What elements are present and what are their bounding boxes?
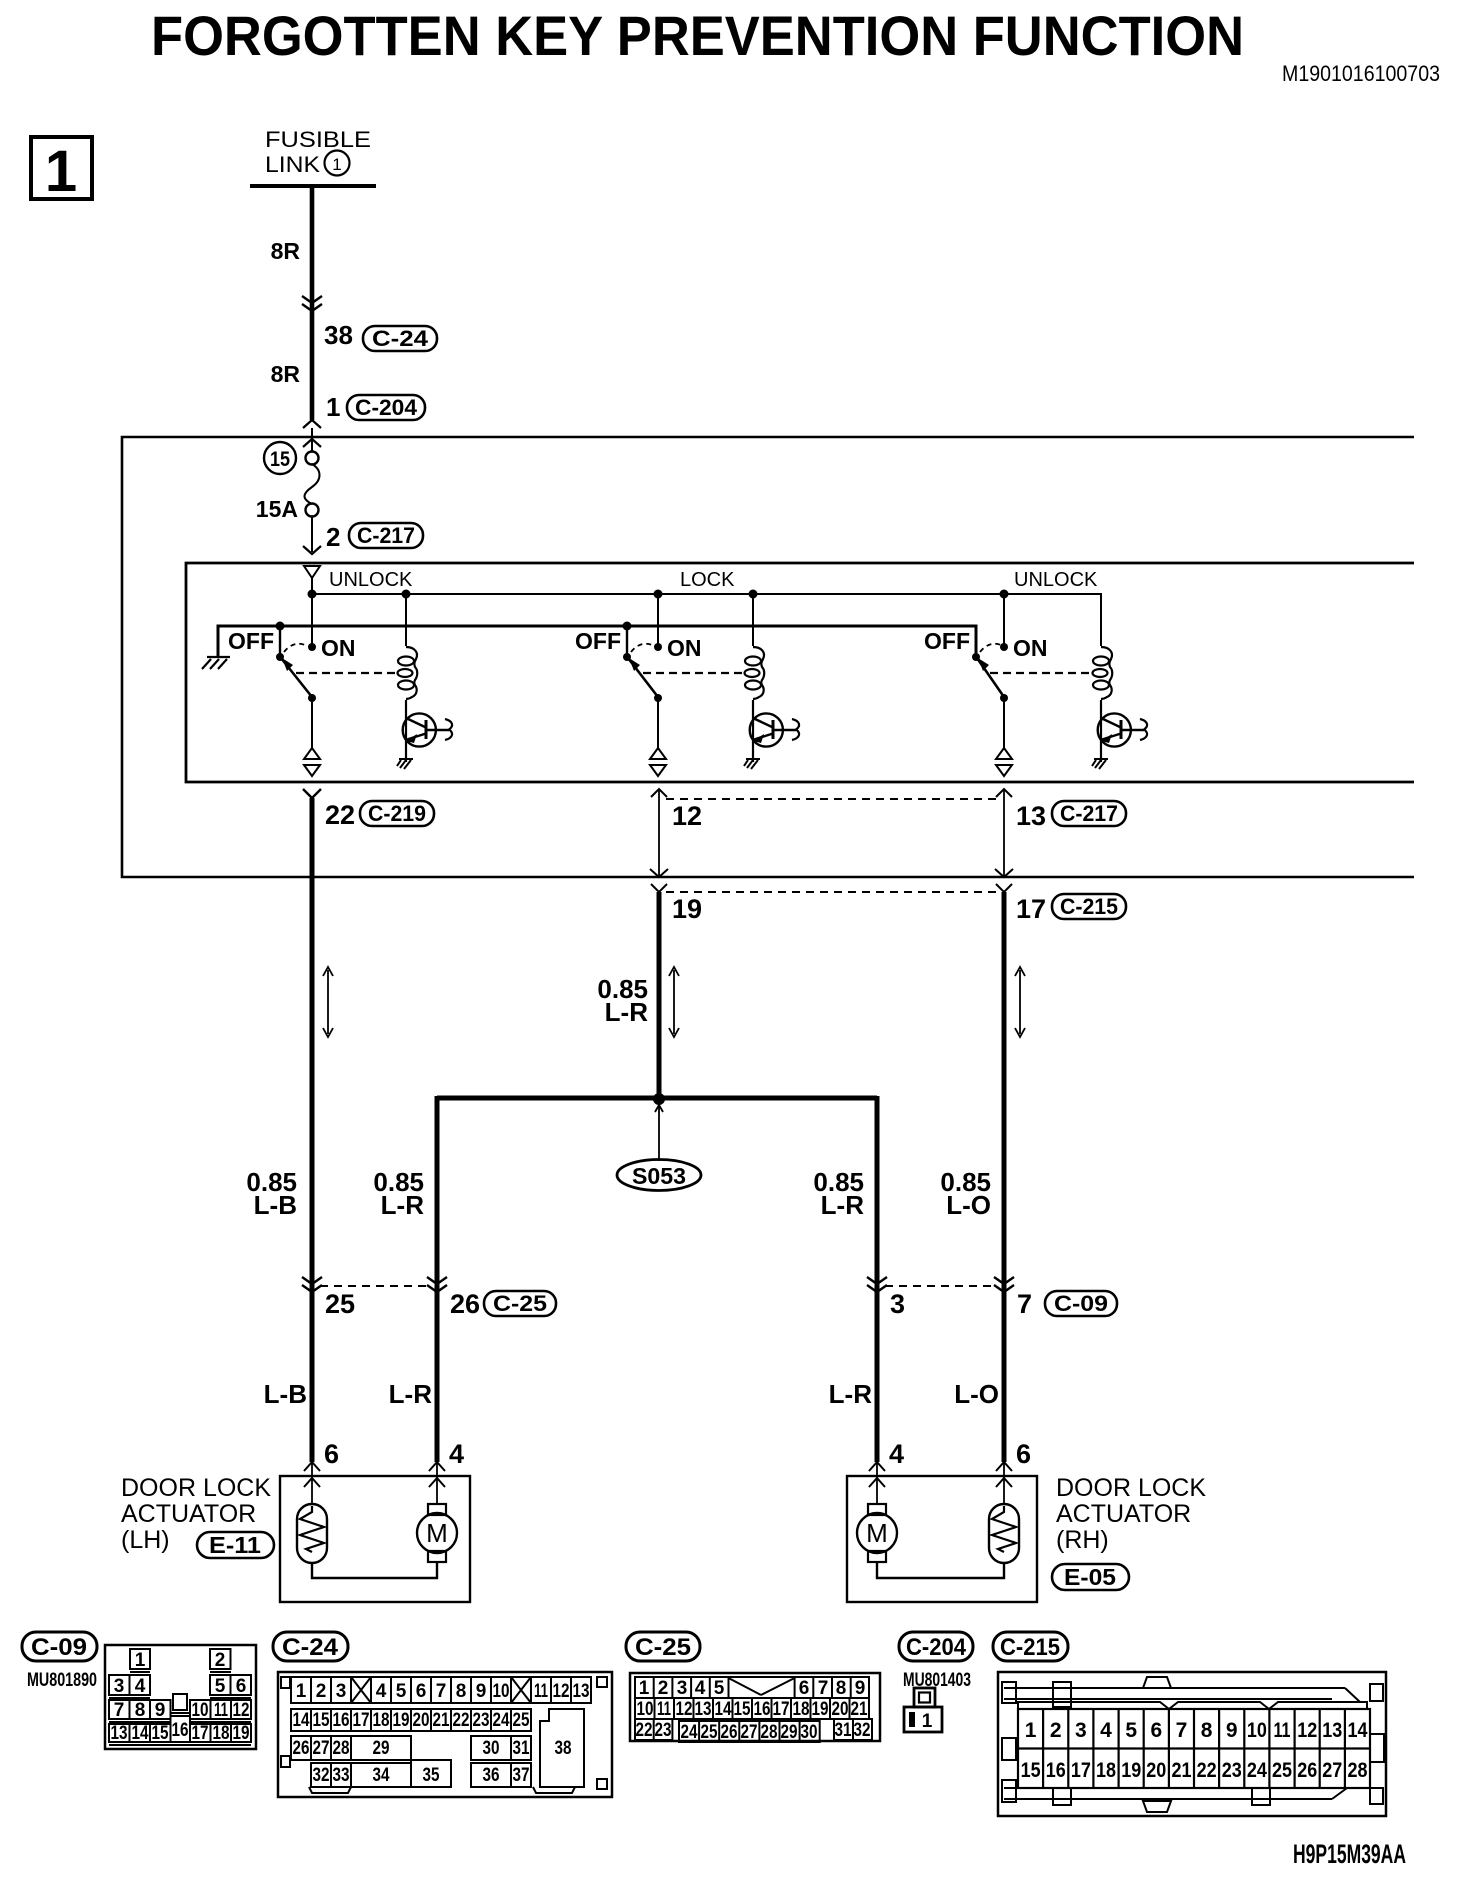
svg-text:LOCK: LOCK — [680, 569, 735, 591]
svg-text:17: 17 — [1071, 1759, 1091, 1782]
C-215 top clip — [1143, 1677, 1171, 1688]
transistor Q3 — [1098, 713, 1147, 746]
dashed pair line 12-13 — [666, 798, 997, 800]
C-09 connector body — [105, 1645, 256, 1749]
connector capsule C-09 — [1045, 1291, 1117, 1316]
connector pass chevrons on feed wire — [302, 296, 322, 311]
svg-text:DOOR LOCK: DOOR LOCK — [1056, 1474, 1206, 1502]
svg-text:7: 7 — [818, 1678, 829, 1699]
svg-text:15: 15 — [152, 1723, 169, 1744]
svg-text:ON: ON — [321, 635, 356, 661]
C-25 row 3 cells — [635, 1719, 672, 1740]
svg-text:16: 16 — [1046, 1759, 1066, 1782]
svg-text:6: 6 — [799, 1678, 810, 1699]
svg-text:4: 4 — [889, 1439, 904, 1469]
svg-text:10: 10 — [1247, 1719, 1267, 1742]
svg-text:DOOR LOCK: DOOR LOCK — [121, 1474, 271, 1502]
connector capsule C-219 — [360, 801, 434, 826]
svg-text:14: 14 — [1348, 1719, 1368, 1742]
svg-text:S053: S053 — [632, 1163, 686, 1189]
relay block inner box — [186, 563, 1414, 782]
capsule C-09 (pinout) — [22, 1632, 97, 1661]
svg-text:4: 4 — [449, 1439, 464, 1469]
chevron on wire 22 — [303, 789, 321, 798]
svg-text:11: 11 — [534, 1681, 548, 1702]
relay coil R1 — [398, 647, 418, 699]
C-09 pin 16 tall — [171, 1716, 191, 1742]
svg-text:26: 26 — [450, 1289, 480, 1319]
wire: pin 12 link — [651, 789, 667, 797]
svg-text:19: 19 — [672, 894, 702, 924]
svg-text:ACTUATOR: ACTUATOR — [1056, 1500, 1191, 1528]
svg-text:22: 22 — [453, 1710, 470, 1731]
svg-text:FUSIBLE: FUSIBLE — [265, 127, 371, 152]
svg-text:E-11: E-11 — [209, 1532, 261, 1558]
svg-text:C-24: C-24 — [282, 1634, 339, 1661]
entry arrows pin 4 (RH) — [869, 1462, 885, 1471]
svg-text:(RH): (RH) — [1056, 1526, 1109, 1554]
svg-text:C-24: C-24 — [372, 326, 429, 351]
svg-text:11: 11 — [657, 1699, 671, 1720]
RH actuator coil — [989, 1504, 1019, 1563]
svg-text:13: 13 — [1016, 801, 1046, 831]
sheet number box 1 — [31, 137, 92, 199]
arrowhead down to relay block — [303, 546, 321, 554]
harness double arrow (left) — [323, 967, 333, 1037]
svg-text:C-25: C-25 — [493, 1291, 547, 1316]
svg-text:25: 25 — [513, 1710, 530, 1731]
svg-text:9: 9 — [476, 1681, 487, 1702]
svg-text:9: 9 — [1226, 1719, 1238, 1742]
node: blade bottom R2 — [654, 694, 662, 702]
fuse circled number 15 — [264, 442, 296, 474]
svg-text:26: 26 — [293, 1738, 310, 1759]
svg-text:C-217: C-217 — [357, 523, 415, 548]
svg-text:20: 20 — [832, 1699, 849, 1720]
wire: L-O trunk (pin 17 to RH actuator) — [1002, 892, 1007, 1462]
svg-text:32: 32 — [313, 1765, 330, 1786]
output triangles R2 — [650, 748, 666, 759]
connector chevrons pin 3 — [867, 1277, 887, 1292]
svg-text:19: 19 — [233, 1723, 250, 1744]
node ON R3 — [1000, 643, 1008, 651]
svg-text:23: 23 — [1222, 1759, 1242, 1782]
capsule C-215 (pinout) — [993, 1632, 1068, 1661]
svg-text:21: 21 — [433, 1710, 450, 1731]
C-09 pin 2 — [210, 1649, 231, 1669]
svg-text:1: 1 — [135, 1650, 146, 1671]
C-24 row 3 cells — [291, 1736, 351, 1760]
capsule C-24 (pinout) — [273, 1632, 348, 1661]
node OFF R2 — [626, 626, 628, 657]
node: blade bottom R1 — [308, 694, 316, 702]
svg-text:8: 8 — [1201, 1719, 1213, 1742]
node: feed triangle into relay block — [304, 566, 320, 578]
ground (relay common) — [202, 657, 230, 669]
svg-text:UNLOCK: UNLOCK — [1014, 569, 1098, 591]
svg-text:26: 26 — [721, 1722, 738, 1743]
C-25 row 1 cells — [635, 1677, 869, 1698]
dashed actuation link R2 — [643, 672, 743, 674]
wire: branch to pin 3 — [875, 1096, 880, 1462]
connector chevrons pin 25 — [302, 1277, 322, 1292]
svg-text:8: 8 — [836, 1678, 847, 1699]
C-09 center key tab — [173, 1694, 187, 1710]
svg-text:33: 33 — [333, 1765, 350, 1786]
svg-text:11: 11 — [214, 1700, 228, 1721]
wire: battery feed 8R from fusible link — [310, 186, 315, 420]
connector capsule E-05 — [1052, 1564, 1129, 1590]
svg-text:12: 12 — [233, 1700, 250, 1721]
dashed actuation link R1 — [296, 672, 396, 674]
svg-text:15: 15 — [1021, 1759, 1041, 1782]
svg-text:31: 31 — [513, 1738, 530, 1759]
svg-text:38: 38 — [555, 1738, 572, 1759]
svg-text:M: M — [426, 1518, 448, 1548]
svg-text:21: 21 — [851, 1699, 868, 1720]
node: blade bottom R3 — [1000, 694, 1008, 702]
C-215 bottom rail — [1004, 1787, 1345, 1789]
svg-text:4: 4 — [1100, 1719, 1112, 1742]
dashed pair line 19-17 — [666, 891, 997, 893]
svg-text:15: 15 — [734, 1699, 751, 1720]
svg-text:L-R: L-R — [821, 1190, 865, 1220]
svg-text:13: 13 — [111, 1723, 128, 1744]
svg-text:7: 7 — [436, 1681, 447, 1702]
svg-text:38: 38 — [324, 320, 353, 350]
wire: coil to ground R3 — [1100, 700, 1102, 762]
svg-text:L-B: L-B — [254, 1190, 297, 1220]
svg-text:6: 6 — [324, 1439, 339, 1469]
svg-text:25: 25 — [1272, 1759, 1292, 1782]
svg-text:ON: ON — [1013, 635, 1048, 661]
svg-text:9: 9 — [155, 1700, 166, 1721]
entry arrows pin 6 — [304, 1462, 320, 1471]
svg-text:24: 24 — [1247, 1759, 1267, 1782]
svg-text:C-217: C-217 — [1060, 801, 1118, 826]
chevrons below ECU box on wire 17 — [996, 884, 1012, 892]
svg-text:M: M — [866, 1518, 888, 1548]
wire: switch feed R3 — [1003, 594, 1005, 647]
svg-text:19: 19 — [812, 1699, 829, 1720]
chevron below box entry — [303, 439, 321, 447]
svg-text:OFF: OFF — [228, 628, 274, 654]
node OFF R1 — [279, 626, 281, 657]
svg-text:ON: ON — [667, 635, 702, 661]
fuse symbol — [306, 452, 319, 465]
svg-text:1: 1 — [639, 1678, 650, 1699]
arrowhead into ETACS box — [303, 420, 321, 428]
C-09 pins 10-11-12 — [190, 1700, 211, 1719]
svg-text:32: 32 — [854, 1720, 871, 1741]
svg-text:23: 23 — [473, 1710, 490, 1731]
svg-text:21: 21 — [1172, 1759, 1192, 1782]
capsule C-204 (pinout) — [899, 1632, 973, 1661]
fusible link bar — [250, 184, 376, 188]
svg-text:37: 37 — [513, 1765, 530, 1786]
svg-text:6: 6 — [416, 1681, 427, 1702]
entry arrows pin 4 — [429, 1462, 445, 1471]
C-24 pin numbers — [293, 1681, 590, 1786]
transistor Q2 — [750, 713, 799, 746]
svg-text:4: 4 — [135, 1676, 146, 1697]
svg-text:25: 25 — [325, 1289, 355, 1319]
svg-text:3: 3 — [114, 1676, 125, 1697]
C-09 pin 1 — [130, 1649, 150, 1669]
svg-text:1: 1 — [326, 392, 340, 422]
svg-text:22: 22 — [325, 800, 355, 830]
C-215 top rail — [1004, 1687, 1345, 1689]
C-204 connector body — [904, 1688, 942, 1732]
svg-text:19: 19 — [393, 1710, 410, 1731]
svg-text:FORGOTTEN KEY PREVENTION FUNCT: FORGOTTEN KEY PREVENTION FUNCTION — [151, 4, 1244, 67]
RH actuator box — [847, 1476, 1037, 1602]
C-25 connector body — [630, 1673, 880, 1741]
switch blade R1 — [281, 658, 312, 697]
svg-text:3: 3 — [890, 1289, 905, 1319]
dashed throw arc R3 — [980, 644, 1003, 652]
svg-text:7: 7 — [1176, 1719, 1188, 1742]
C-09 pins 17-18-19 — [190, 1724, 211, 1742]
C-25 key notch V — [729, 1678, 762, 1695]
C-204 pin 1 — [909, 1712, 915, 1727]
svg-text:10: 10 — [493, 1681, 510, 1702]
wire: L-R center trunk — [657, 892, 662, 1100]
svg-text:17: 17 — [1016, 894, 1046, 924]
svg-text:25: 25 — [701, 1722, 718, 1743]
C-24 row 4 cells — [311, 1763, 351, 1787]
C-09 pins 13-14-15 — [109, 1724, 130, 1742]
svg-text:6: 6 — [1150, 1719, 1162, 1742]
svg-text:18: 18 — [793, 1699, 810, 1720]
svg-text:18: 18 — [373, 1710, 390, 1731]
ETACS-ECU outer box — [122, 437, 1414, 877]
wire: top bus — [312, 578, 1101, 646]
LH actuator internal wire — [312, 1562, 437, 1578]
svg-text:6: 6 — [236, 1676, 247, 1697]
svg-text:L-B: L-B — [264, 1379, 307, 1409]
svg-text:H9P15M39AA: H9P15M39AA — [1293, 1839, 1406, 1869]
relay coil R2 — [745, 647, 765, 699]
svg-text:L-R: L-R — [605, 997, 649, 1027]
C-215 pin block top edge — [1018, 1702, 1367, 1709]
ground (Q2) — [744, 759, 760, 769]
connector capsule C-204 — [347, 395, 425, 420]
svg-text:11: 11 — [1274, 1719, 1291, 1742]
svg-text:8: 8 — [456, 1681, 467, 1702]
svg-text:23: 23 — [655, 1720, 672, 1741]
svg-text:22: 22 — [1197, 1759, 1217, 1782]
svg-text:31: 31 — [835, 1720, 852, 1741]
svg-text:2: 2 — [316, 1681, 327, 1702]
svg-text:C-204: C-204 — [355, 395, 418, 420]
svg-text:17: 17 — [773, 1699, 790, 1720]
svg-text:C-204: C-204 — [906, 1634, 967, 1661]
svg-text:8R: 8R — [271, 361, 301, 387]
splice S053 — [655, 1105, 663, 1112]
connector capsule C-217 (lower) — [1052, 801, 1126, 826]
svg-text:26: 26 — [1297, 1759, 1317, 1782]
svg-text:L-R: L-R — [829, 1379, 873, 1409]
connector capsule C-217 — [349, 523, 423, 548]
output triangles R1 — [304, 748, 320, 759]
svg-text:27: 27 — [1322, 1759, 1342, 1782]
C-24 row 2 cells — [291, 1709, 531, 1731]
svg-text:16: 16 — [333, 1710, 350, 1731]
svg-text:7: 7 — [1017, 1289, 1032, 1319]
svg-text:1: 1 — [296, 1681, 307, 1702]
svg-text:C-25: C-25 — [635, 1634, 691, 1661]
svg-text:C-09: C-09 — [31, 1634, 87, 1661]
output triangles R3 — [996, 748, 1012, 759]
transistor Q1 — [403, 713, 452, 746]
C-24 connector body — [278, 1672, 612, 1797]
node ON R2 — [654, 643, 662, 651]
svg-text:E-05: E-05 — [1064, 1564, 1116, 1590]
svg-text:18: 18 — [1096, 1759, 1116, 1782]
svg-text:1: 1 — [45, 139, 77, 204]
svg-text:C-219: C-219 — [368, 801, 426, 826]
C-24 key X cells — [351, 1677, 371, 1703]
harness double arrow (right) — [1015, 967, 1025, 1037]
svg-text:L-R: L-R — [389, 1379, 433, 1409]
fusible link number circle 1 — [325, 151, 350, 176]
svg-text:15A: 15A — [256, 496, 298, 522]
svg-text:27: 27 — [741, 1722, 758, 1743]
wire: switch feed R2 — [657, 594, 659, 647]
svg-text:OFF: OFF — [575, 628, 621, 654]
svg-text:28: 28 — [333, 1738, 350, 1759]
wire: coil feed R2 — [752, 594, 754, 646]
wire: ground bus — [218, 626, 976, 657]
svg-text:6: 6 — [1016, 1439, 1031, 1469]
svg-text:19: 19 — [1121, 1759, 1141, 1782]
svg-text:12: 12 — [672, 801, 702, 831]
svg-text:29: 29 — [781, 1722, 798, 1743]
svg-text:LINK: LINK — [265, 152, 320, 177]
svg-text:10: 10 — [637, 1699, 654, 1720]
svg-text:30: 30 — [801, 1722, 818, 1743]
C-215 bottom clip — [1143, 1801, 1171, 1812]
svg-text:2: 2 — [658, 1678, 669, 1699]
C-24 feet — [309, 1787, 351, 1793]
svg-text:16: 16 — [172, 1720, 189, 1741]
svg-text:(LH): (LH) — [121, 1526, 170, 1554]
junction dots on top bus — [308, 590, 317, 599]
dashed pair 25-26 — [320, 1285, 429, 1287]
svg-text:20: 20 — [413, 1710, 430, 1731]
svg-text:L-O: L-O — [954, 1379, 999, 1409]
svg-text:16: 16 — [754, 1699, 771, 1720]
wire: switch feed R1 — [311, 594, 313, 647]
svg-text:15: 15 — [313, 1710, 330, 1731]
entry arrows pin 6 (RH) — [996, 1462, 1012, 1471]
svg-text:3: 3 — [1075, 1719, 1087, 1742]
svg-text:22: 22 — [636, 1720, 653, 1741]
C-215 pin numbers — [1021, 1719, 1368, 1782]
svg-text:13: 13 — [573, 1681, 590, 1702]
LH actuator motor M — [428, 1504, 446, 1515]
svg-text:14: 14 — [715, 1699, 732, 1720]
svg-text:24: 24 — [681, 1722, 698, 1743]
svg-text:3: 3 — [336, 1681, 347, 1702]
svg-text:28: 28 — [1348, 1759, 1368, 1782]
svg-text:14: 14 — [132, 1723, 149, 1744]
svg-text:ACTUATOR: ACTUATOR — [121, 1500, 256, 1528]
svg-text:1: 1 — [922, 1711, 933, 1732]
svg-text:MU801890: MU801890 — [27, 1670, 97, 1691]
svg-text:15: 15 — [270, 448, 290, 471]
svg-text:3: 3 — [677, 1678, 688, 1699]
connector chevrons pin 7 — [994, 1277, 1014, 1292]
relay coil R3 — [1093, 647, 1113, 699]
svg-text:13: 13 — [1322, 1719, 1342, 1742]
C-215 left bosses — [1002, 1682, 1016, 1703]
svg-text:17: 17 — [192, 1723, 209, 1744]
C-215 rail tab top — [1053, 1682, 1071, 1707]
node ON R1 — [308, 643, 316, 651]
wire: coil to ground R2 — [752, 700, 754, 762]
RH actuator internal wire — [877, 1562, 1004, 1578]
C-25 pin numbers — [636, 1678, 871, 1743]
svg-text:18: 18 — [213, 1723, 230, 1744]
wire into fuse — [311, 428, 313, 452]
svg-text:1: 1 — [332, 155, 341, 174]
svg-text:9: 9 — [855, 1678, 866, 1699]
C-24 corner keys — [281, 1677, 290, 1688]
RH actuator motor M — [868, 1504, 886, 1515]
connector capsule C-24 — [363, 326, 437, 351]
svg-text:12: 12 — [676, 1699, 693, 1720]
svg-text:28: 28 — [761, 1722, 778, 1743]
svg-text:5: 5 — [215, 1676, 226, 1697]
svg-text:L-R: L-R — [381, 1190, 425, 1220]
svg-text:2: 2 — [215, 1650, 226, 1671]
C-24 row 1 cells — [291, 1677, 591, 1703]
svg-text:30: 30 — [483, 1738, 500, 1759]
svg-text:5: 5 — [714, 1678, 725, 1699]
svg-text:2: 2 — [326, 522, 340, 552]
svg-text:24: 24 — [493, 1710, 510, 1731]
C-09 pins 7-8-9 — [109, 1700, 130, 1719]
dashed throw arc R2 — [631, 644, 654, 652]
C-24 pin 38 cavity — [540, 1709, 584, 1787]
svg-text:5: 5 — [1125, 1719, 1137, 1742]
C-09 pin numbers — [111, 1650, 250, 1744]
svg-text:C-215: C-215 — [1000, 1634, 1060, 1661]
svg-text:8: 8 — [135, 1700, 146, 1721]
svg-text:35: 35 — [423, 1765, 440, 1786]
svg-text:C-09: C-09 — [1054, 1291, 1108, 1316]
C-09 pins 3-4 — [109, 1675, 130, 1695]
switch blade R2 — [628, 658, 658, 697]
dashed pair 3-7 — [885, 1285, 996, 1287]
svg-text:L-O: L-O — [946, 1190, 991, 1220]
chevrons below ECU box on wire 19 — [651, 884, 667, 892]
dashed actuation link R3 — [990, 672, 1091, 674]
svg-text:1: 1 — [1025, 1719, 1037, 1742]
ground (Q1) — [397, 759, 413, 769]
svg-text:20: 20 — [1146, 1759, 1166, 1782]
wire: pin 13 link — [996, 789, 1012, 797]
svg-text:2: 2 — [1050, 1719, 1062, 1742]
svg-text:M1901016100703: M1901016100703 — [1282, 61, 1440, 86]
wire to output R1 — [311, 698, 313, 748]
svg-text:29: 29 — [373, 1738, 390, 1759]
C-215 pin grid — [1018, 1709, 1370, 1788]
connector capsule C-215 (lower) — [1052, 894, 1126, 919]
svg-text:7: 7 — [114, 1700, 125, 1721]
